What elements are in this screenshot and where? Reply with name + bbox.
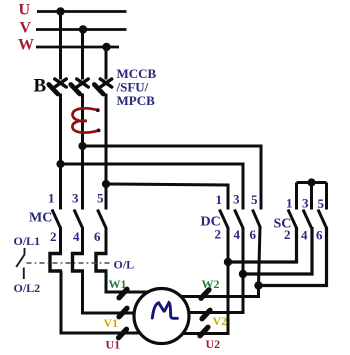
- junction SC star point: [307, 178, 315, 186]
- wire DC pole2 to motor V2: [175, 274, 243, 313]
- svg-text:6: 6: [250, 227, 257, 242]
- wire pole 3 upper: [105, 47, 108, 80]
- SC contact pole 2 blade: [303, 210, 312, 229]
- svg-text:MPCB: MPCB: [117, 93, 156, 108]
- svg-text:U: U: [19, 2, 31, 19]
- wire feeder 2 (pole1 to DC pin3): [61, 164, 244, 210]
- SC contact pole 3 blade: [318, 210, 327, 229]
- junction DC pole 3 to SC: [254, 281, 262, 289]
- wire SC pole 2 upper stub: [310, 183, 313, 210]
- wire W phase rail: [36, 46, 119, 49]
- svg-text:4: 4: [301, 228, 308, 243]
- wire DC pole 1 lower: [227, 227, 230, 262]
- motor M squiggle: [152, 303, 177, 319]
- svg-text:O/L1: O/L1: [14, 234, 41, 248]
- svg-text:W2: W2: [202, 277, 220, 291]
- wire pole 3 to motor W1: [106, 271, 150, 292]
- terminal lug W2: [201, 290, 209, 299]
- MC contact pole 2 blade: [74, 210, 83, 229]
- wire pole 1 upper: [59, 12, 62, 80]
- svg-text:4: 4: [73, 229, 80, 244]
- overload heater staple pole 3: [96, 254, 108, 272]
- wire SC pole 3 upper stub: [325, 183, 328, 210]
- wire pole 3 middle: [105, 94, 108, 210]
- svg-text:3: 3: [233, 192, 240, 207]
- svg-text:U2: U2: [206, 337, 221, 350]
- wire DC pole 3 lower: [259, 227, 261, 286]
- junction V rail to pole 2: [79, 25, 87, 33]
- overload trip dash-dot line: [27, 262, 111, 264]
- svg-text:5: 5: [251, 192, 258, 207]
- label MCCB/SFU/MPCB: [116, 66, 157, 108]
- svg-text:1: 1: [216, 192, 223, 207]
- svg-text:B: B: [34, 76, 47, 97]
- junction DC pole 1 to SC: [224, 258, 232, 266]
- wire U phase rail: [37, 10, 127, 13]
- SC star bridge: [297, 181, 327, 184]
- junction W rail to pole 3: [102, 43, 110, 51]
- DC contact pole 1 blade: [220, 210, 229, 229]
- wire pole 2 middle: [81, 94, 84, 210]
- DC contact pole 2 blade: [235, 210, 244, 229]
- svg-text:MC: MC: [29, 211, 52, 226]
- breaker pole 3 (X contact and blade): [94, 79, 111, 94]
- wire DC pole2 to SC pin4: [243, 227, 312, 274]
- wire pole 2 upper: [81, 30, 84, 80]
- motor body circle: [134, 289, 189, 344]
- terminal lug U2: [200, 327, 208, 336]
- wire DC pole1 to SC pin2: [228, 227, 297, 262]
- breaker pole 1 (X contact and blade): [49, 79, 66, 94]
- overload heater staple pole 2: [73, 254, 85, 272]
- svg-text:3: 3: [302, 196, 309, 211]
- wire MC pole 3 lower stub: [105, 227, 108, 254]
- terminal lug W1: [119, 289, 127, 298]
- svg-text:6: 6: [316, 228, 323, 243]
- junction feeder 3 on pole 3: [102, 180, 110, 188]
- MC contact pole 1 blade: [52, 210, 61, 229]
- svg-text:4: 4: [234, 227, 241, 242]
- junction feeder 1 on pole 2: [78, 142, 86, 150]
- wire feeder 1 (pole2 to DC pin5): [83, 146, 262, 210]
- svg-text:1: 1: [286, 196, 293, 211]
- SC contact pole 1 blade: [288, 210, 297, 229]
- svg-text:5: 5: [97, 191, 104, 206]
- coil end tip bottom: [97, 129, 101, 133]
- overload heater staple pole 1: [50, 254, 62, 272]
- svg-text:V: V: [20, 20, 32, 37]
- wire DC pole 2 lower: [242, 227, 245, 274]
- svg-text:V1: V1: [104, 316, 119, 330]
- wire MC pole 1 lower stub: [59, 227, 62, 254]
- breaker pole 2 (X contact and blade): [71, 79, 88, 94]
- svg-text:5: 5: [318, 196, 325, 211]
- svg-text:3: 3: [72, 191, 79, 206]
- DC contact pole 3 blade: [253, 210, 261, 229]
- wire pole 1 middle: [59, 94, 62, 210]
- svg-text:1: 1: [48, 191, 55, 206]
- svg-text:O/L: O/L: [114, 258, 135, 272]
- wire SC pole 1 upper stub: [295, 183, 298, 210]
- svg-text:V2: V2: [213, 314, 228, 328]
- wire pole 1 to motor U1: [61, 271, 150, 333]
- wire feeder 3 (pole3 to DC pin1): [106, 184, 228, 210]
- wire MC pole 2 lower stub: [81, 227, 84, 254]
- junction DC pole 2 to SC: [239, 270, 247, 278]
- terminal lug V1: [119, 308, 127, 317]
- svg-text:6: 6: [94, 229, 101, 244]
- junction feeder 2 on pole 1: [56, 160, 64, 168]
- wire DC pole1 to motor U2: [175, 262, 228, 334]
- junction U rail to pole 1: [56, 7, 64, 15]
- wire V phase rail: [36, 28, 127, 31]
- svg-text:O/L2: O/L2: [14, 281, 41, 295]
- coil end tip top: [96, 108, 100, 112]
- wire DC pole3 to motor W2: [172, 286, 259, 297]
- svg-text:W: W: [18, 37, 34, 54]
- MC contact pole 3 blade: [98, 210, 107, 229]
- terminal lug V2: [202, 310, 210, 319]
- overload heater coil on pole 2: [72, 108, 98, 132]
- wire DC pole3 to SC pin6: [259, 227, 327, 286]
- svg-text:2: 2: [50, 229, 57, 244]
- svg-text:2: 2: [284, 227, 291, 242]
- svg-text:2: 2: [215, 227, 222, 242]
- wire pole 2 to motor V1: [83, 271, 151, 313]
- overload auxiliary contact: [16, 248, 24, 279]
- terminal lug U1: [119, 329, 127, 338]
